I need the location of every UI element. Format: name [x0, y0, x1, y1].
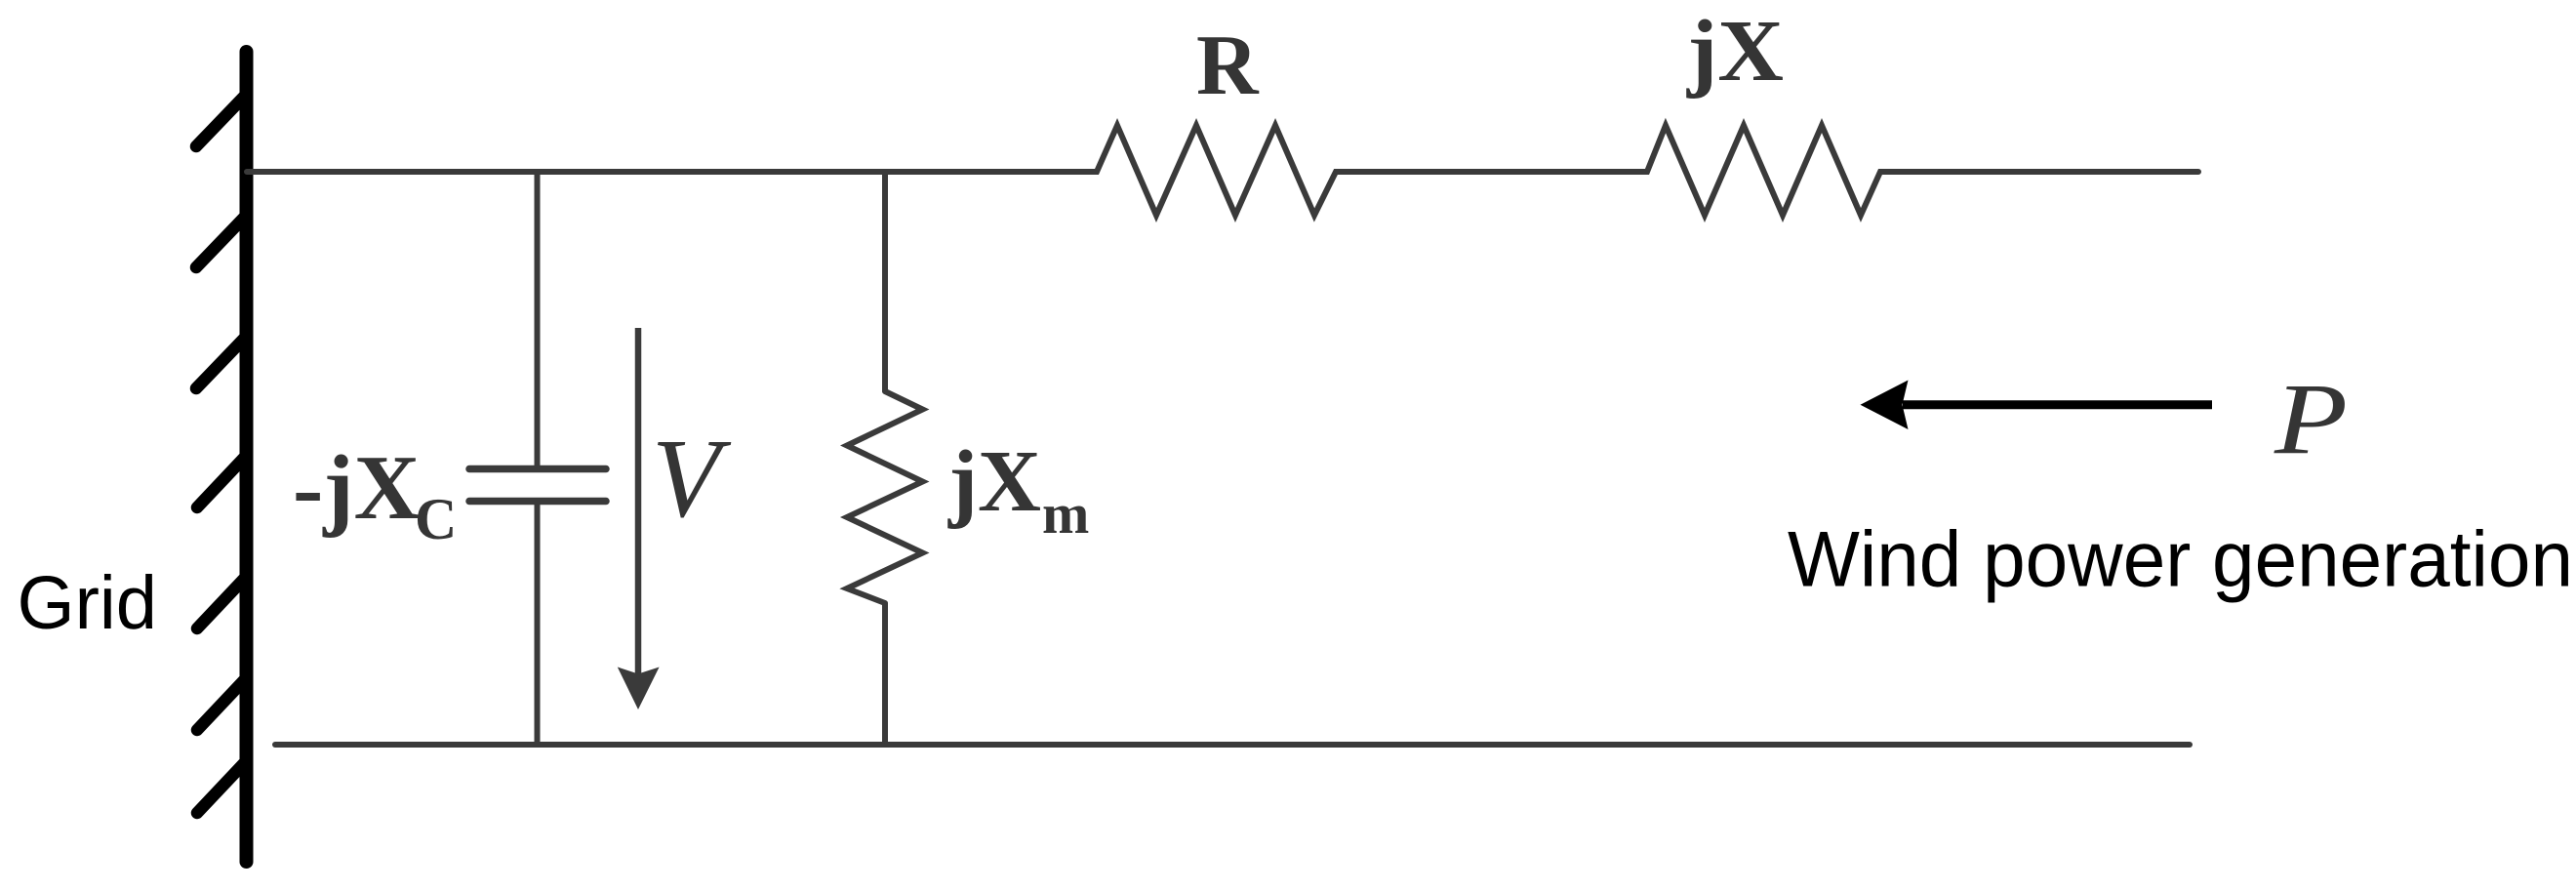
magnetizing branch bottom wire	[882, 603, 888, 745]
svg-text:jX: jX	[1686, 3, 1784, 100]
capacitor bottom plate	[469, 498, 606, 506]
grid hatch 1	[196, 94, 247, 146]
grid hatch 6	[197, 677, 247, 730]
svg-text:m: m	[1042, 482, 1089, 546]
capacitor top plate	[469, 466, 606, 473]
svg-text:Grid: Grid	[18, 561, 158, 645]
grid hatch 4	[197, 455, 247, 507]
capacitor branch bottom wire	[535, 503, 541, 745]
grid hatch 2	[196, 215, 247, 267]
P arrow shaft	[1903, 400, 2212, 409]
grid bus bar	[240, 52, 254, 862]
grid hatch 5	[197, 576, 247, 628]
V arrow shaft	[635, 328, 642, 675]
top wire with resistor R and reactance jX zigzags	[247, 126, 2198, 216]
svg-text:R: R	[1196, 19, 1260, 113]
svg-text:V: V	[652, 417, 732, 541]
grid hatch 3	[196, 336, 247, 388]
P arrowhead	[1861, 381, 1909, 430]
svg-text:Wind power generation: Wind power generation	[1788, 516, 2573, 604]
capacitor branch top wire	[535, 172, 541, 466]
V arrowhead	[618, 668, 660, 710]
svg-text:jX: jX	[947, 433, 1041, 530]
grid hatch 7	[197, 760, 247, 813]
svg-text:C: C	[415, 487, 457, 551]
magnetizing reactance jXm zigzag	[847, 391, 923, 603]
bottom wire	[275, 742, 2190, 748]
svg-text:P: P	[2274, 363, 2348, 475]
svg-text:-jX: -jX	[293, 437, 421, 539]
magnetizing branch top wire	[882, 172, 888, 391]
